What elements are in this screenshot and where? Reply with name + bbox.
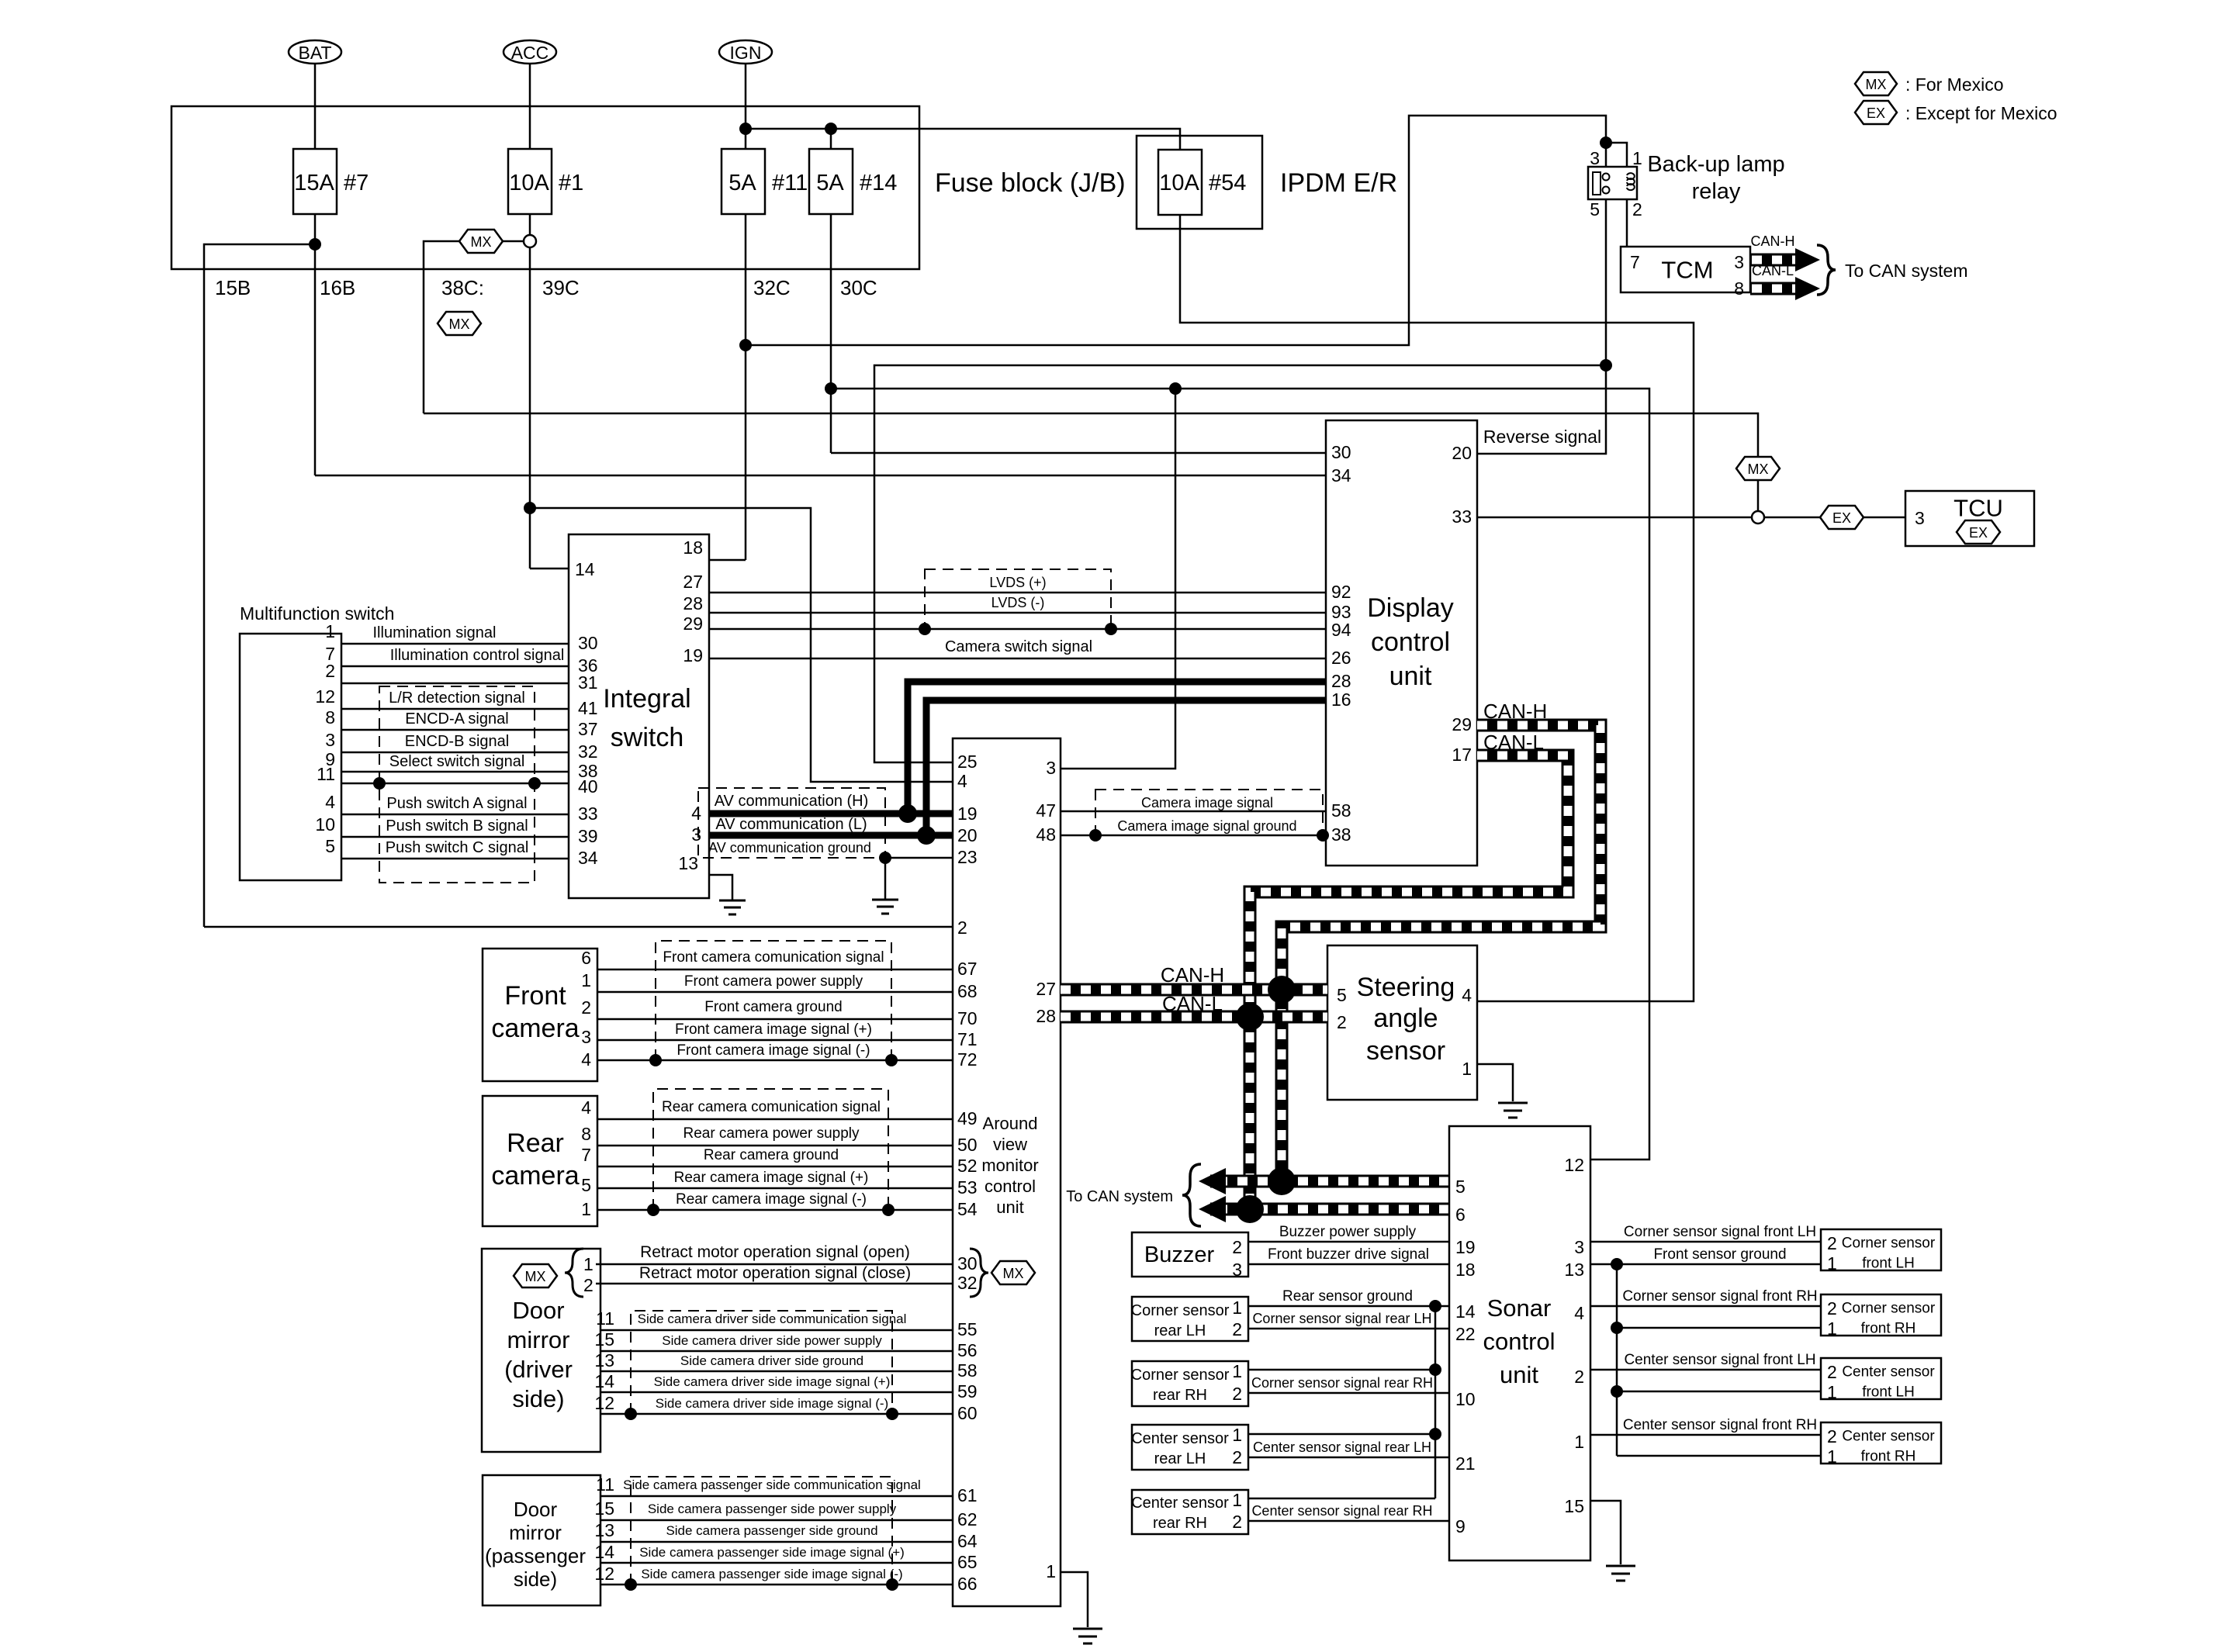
AVM pin 1 ground: [1061, 1572, 1088, 1627]
svg-text:control: control: [1371, 627, 1450, 657]
svg-text:3: 3: [325, 730, 335, 750]
svg-text:CAN-H: CAN-H: [1751, 233, 1795, 249]
svg-text:38: 38: [1331, 824, 1351, 845]
junction dot rear ground 3: [1429, 1428, 1441, 1440]
relay coil: [1627, 173, 1635, 190]
LVDS dashed box: [925, 569, 1111, 629]
steering pin 1 ground wire: [1477, 1064, 1513, 1101]
svg-text:side): side): [514, 1567, 557, 1591]
wire sonar 4 corner sensor signal front RH: [1590, 1305, 1821, 1308]
integral pin 27 to DCU 92: [709, 592, 1326, 594]
svg-text:2: 2: [957, 918, 967, 938]
svg-text:33: 33: [1452, 506, 1472, 527]
svg-text:mirror: mirror: [509, 1521, 562, 1544]
MX hexagon retract right: [991, 1261, 1035, 1284]
junction dot passenger shield left: [625, 1578, 637, 1591]
MX legend: [1855, 72, 2004, 95]
MX hexagon retract left: [514, 1264, 557, 1287]
svg-text:Center sensor: Center sensor: [1842, 1364, 1935, 1381]
svg-text:L/R detection signal: L/R detection signal: [389, 689, 525, 707]
svg-text:: Except for Mexico: : Except for Mexico: [1905, 103, 2057, 123]
corner sensor rear RH box: [1132, 1361, 1248, 1406]
svg-text:15A: 15A: [294, 171, 334, 195]
svg-text:33: 33: [578, 804, 598, 824]
svg-text:(driver: (driver: [504, 1356, 573, 1383]
svg-text:Retract motor operation signal: Retract motor operation signal (close): [639, 1264, 911, 1282]
svg-text:Side camera driver side image: Side camera driver side image signal (+): [654, 1374, 891, 1389]
svg-text:8: 8: [1734, 278, 1744, 299]
svg-text:LVDS (+): LVDS (+): [989, 575, 1046, 590]
svg-text:Camera image signal: Camera image signal: [1141, 795, 1273, 810]
rear camera pin 4 to AVM 49: [597, 1118, 953, 1121]
thick AV communication H wire: [709, 810, 953, 817]
wire mf8 ENCD-A signal: [341, 729, 569, 731]
svg-text:30C: 30C: [840, 276, 877, 299]
svg-text:31: 31: [578, 672, 598, 693]
wire IGN bus to IPDM fuse #54: [746, 129, 1180, 150]
svg-text:1: 1: [325, 621, 335, 641]
svg-text:50: 50: [957, 1135, 978, 1155]
svg-text:MX: MX: [449, 316, 470, 332]
svg-text:TCU: TCU: [1954, 495, 2003, 522]
svg-text:Front buzzer drive signal: Front buzzer drive signal: [1268, 1246, 1429, 1263]
svg-text:12: 12: [594, 1564, 614, 1584]
wire center rear RH signal to sonar 9: [1248, 1520, 1449, 1522]
wire sonar 3 corner sensor signal front LH: [1590, 1241, 1821, 1243]
svg-text:rear RH: rear RH: [1153, 1387, 1207, 1404]
thick AV L branch to DCU 16: [926, 700, 1326, 835]
svg-text:Center sensor signal rear LH: Center sensor signal rear LH: [1253, 1439, 1431, 1455]
arrow to CAN system lower: [1199, 1196, 1226, 1222]
wire 32C down from 5A#11: [745, 214, 747, 560]
svg-text:18: 18: [1455, 1260, 1476, 1280]
svg-text:3: 3: [1232, 1260, 1242, 1280]
svg-text:12: 12: [315, 686, 335, 707]
power source IGN: [719, 40, 772, 64]
svg-text:30: 30: [578, 633, 598, 653]
svg-text:Center sensor signal front LH: Center sensor signal front LH: [1624, 1352, 1815, 1368]
svg-text:view: view: [993, 1135, 1027, 1154]
corner sensor front RH box: [1821, 1294, 1941, 1336]
svg-text:ENCD-B signal: ENCD-B signal: [405, 733, 509, 750]
corner sensor rear LH box: [1132, 1297, 1248, 1341]
svg-text:9: 9: [1455, 1516, 1466, 1536]
junction dot front ground 3: [1611, 1385, 1623, 1398]
svg-text:EX: EX: [1832, 510, 1851, 526]
wire MX hexagon to circle: [1757, 480, 1760, 511]
svg-text:To CAN system: To CAN system: [1066, 1188, 1173, 1205]
TCM CAN-H arrow: [1750, 233, 1820, 271]
wire mf11: [341, 783, 569, 785]
wire corner rear LH signal to sonar 22: [1248, 1328, 1449, 1330]
wire 38C from MX hexagon down: [424, 241, 459, 413]
svg-text:66: 66: [957, 1574, 978, 1594]
multifunction switch box: [240, 634, 341, 880]
svg-text:Front camera power supply: Front camera power supply: [684, 973, 863, 990]
svg-text:4: 4: [325, 792, 335, 812]
svg-text:#1: #1: [559, 171, 583, 195]
center sensor front LH box: [1821, 1358, 1941, 1399]
svg-text:2: 2: [583, 1275, 593, 1295]
svg-text:32: 32: [957, 1273, 978, 1293]
svg-text:1: 1: [581, 970, 591, 990]
svg-text:Integral: Integral: [603, 684, 690, 714]
svg-text:32C: 32C: [753, 276, 791, 299]
svg-text:Push switch C signal: Push switch C signal: [386, 839, 529, 856]
wire IGN down into fuse block: [745, 64, 747, 149]
svg-text:Buzzer power supply: Buzzer power supply: [1279, 1224, 1417, 1240]
front camera dashed box: [656, 941, 891, 1060]
svg-text:Center sensor: Center sensor: [1131, 1495, 1229, 1512]
svg-text:13: 13: [1564, 1260, 1584, 1280]
front camera pin 6 to AVM 67: [597, 969, 953, 971]
fuse 5A #11: [722, 149, 808, 214]
svg-text:#11: #11: [772, 171, 808, 195]
svg-text:10: 10: [1455, 1389, 1476, 1409]
CAN-H hatched DCU 29 loop: [1282, 725, 1601, 1181]
svg-text:CAN-L: CAN-L: [1162, 992, 1223, 1015]
svg-text:MX: MX: [1003, 1266, 1024, 1281]
svg-text:Side camera passenger side ima: Side camera passenger side image signal …: [639, 1545, 905, 1560]
svg-text:Buzzer: Buzzer: [1144, 1242, 1215, 1267]
svg-text:21: 21: [1455, 1453, 1476, 1474]
svg-text:56: 56: [957, 1340, 978, 1360]
integral pin 13 ground: [709, 875, 732, 900]
wire 15B branch: [204, 244, 315, 927]
integral pin 19 camera switch signal to DCU 26: [709, 658, 1326, 660]
svg-text:5A: 5A: [816, 171, 844, 195]
wire relay pin2 to TCM pin7: [1626, 199, 1628, 247]
svg-text:12: 12: [594, 1393, 614, 1413]
svg-text:4: 4: [581, 1097, 591, 1118]
wire buzzer 3 to sonar 18: [1248, 1263, 1449, 1266]
front camera box: [483, 949, 597, 1081]
svg-text:Rear camera power supply: Rear camera power supply: [683, 1125, 860, 1142]
svg-text:65: 65: [957, 1552, 978, 1572]
svg-text:rear LH: rear LH: [1154, 1322, 1206, 1339]
AV communication dashed box: [698, 788, 885, 858]
big junction dot CAN-H / sonar5: [1268, 1167, 1296, 1195]
connector circle 39C: [524, 235, 536, 247]
center sensor rear LH box: [1132, 1425, 1248, 1470]
svg-text:16B: 16B: [320, 276, 355, 299]
svg-text:68: 68: [957, 981, 978, 1001]
svg-text:Corner sensor: Corner sensor: [1842, 1301, 1936, 1317]
svg-text:#7: #7: [344, 171, 369, 195]
svg-text:16: 16: [1331, 689, 1351, 710]
connector circle on 33 wire: [1752, 511, 1764, 524]
wire 30C down from 5A#14: [830, 214, 832, 453]
svg-text:Front camera comunication sign: Front camera comunication signal: [663, 949, 884, 966]
svg-text:94: 94: [1331, 620, 1351, 640]
wire mf1 illumination signal: [341, 643, 569, 645]
svg-text:MX: MX: [1866, 77, 1887, 92]
junction dot IGN/5A#11: [739, 123, 752, 135]
svg-text:70: 70: [957, 1008, 978, 1028]
svg-text:Corner sensor signal front RH: Corner sensor signal front RH: [1622, 1288, 1817, 1305]
brace to CAN system (sonar): [1182, 1164, 1201, 1226]
svg-text:1: 1: [581, 1199, 591, 1219]
svg-text:28: 28: [1036, 1006, 1056, 1026]
wire front ground to corner front RH pin1: [1617, 1327, 1821, 1329]
wire mf10 push switch B signal: [341, 836, 569, 838]
svg-text:58: 58: [957, 1360, 978, 1381]
svg-text:37: 37: [578, 719, 598, 739]
wire 38C MX feed to TCU circle: [424, 413, 1758, 459]
junction dot rear cam shield left: [647, 1204, 659, 1216]
wire corner rear RH pin1: [1248, 1369, 1435, 1371]
wire front ground to center front LH pin1: [1617, 1391, 1821, 1393]
MX hexagon above TCU circle: [1736, 457, 1780, 480]
wire AVM 48 to DCU 38: [1061, 835, 1326, 837]
svg-text:2: 2: [1827, 1233, 1837, 1253]
camera image dashed box: [1095, 790, 1323, 835]
sonar pin 15 ground: [1590, 1501, 1621, 1564]
TCM CAN-L arrow: [1750, 263, 1820, 300]
svg-text:4: 4: [1462, 985, 1472, 1005]
IPDM E/R box: [1137, 136, 1262, 229]
svg-text:Center sensor signal rear RH: Center sensor signal rear RH: [1251, 1503, 1432, 1519]
svg-text:MX: MX: [471, 234, 492, 250]
svg-text:13: 13: [594, 1520, 614, 1540]
svg-text:34: 34: [578, 848, 598, 868]
svg-text:1: 1: [1827, 1253, 1837, 1274]
svg-text:front LH: front LH: [1862, 1256, 1915, 1272]
svg-text:Rear sensor ground: Rear sensor ground: [1282, 1288, 1413, 1305]
svg-text:Multifunction switch: Multifunction switch: [240, 603, 394, 624]
svg-text:unit: unit: [996, 1198, 1023, 1217]
svg-text:unit: unit: [1500, 1361, 1538, 1388]
junction dot 30C branch: [825, 382, 837, 395]
svg-text:To CAN system: To CAN system: [1845, 261, 1967, 281]
wire 16B to DCU 34: [315, 475, 1326, 477]
svg-text:3: 3: [1734, 252, 1744, 272]
MX hexagon under 38C: [438, 312, 481, 335]
svg-text:control: control: [985, 1177, 1036, 1196]
junction dot rear cam shield right: [882, 1204, 895, 1216]
svg-text:11: 11: [317, 764, 335, 784]
svg-text:30: 30: [1331, 442, 1351, 462]
vertical front sensor ground chain: [1616, 1264, 1618, 1456]
svg-text:4: 4: [957, 771, 967, 791]
fuse block (J/B) box: [171, 106, 919, 269]
driver mirror pin 15 to AVM 56: [600, 1350, 953, 1353]
svg-text:MX: MX: [1748, 461, 1769, 477]
svg-text:Reverse signal: Reverse signal: [1483, 427, 1601, 447]
fuse 10A #54: [1158, 150, 1246, 215]
svg-text:2: 2: [1574, 1367, 1584, 1387]
svg-text:switch: switch: [611, 723, 683, 752]
vertical rear sensor ground chain: [1434, 1306, 1437, 1498]
svg-text:5: 5: [1455, 1177, 1466, 1197]
svg-text:38C:: 38C:: [441, 276, 484, 299]
big junction dot CAN-L / 28: [1236, 1003, 1264, 1031]
passenger mirror pin 15 to AVM 62: [600, 1519, 953, 1522]
svg-text:Side camera passenger side com: Side camera passenger side communication…: [623, 1477, 921, 1492]
svg-text:2: 2: [1827, 1298, 1837, 1318]
svg-text:Push switch B signal: Push switch B signal: [386, 817, 528, 835]
svg-text:58: 58: [1331, 800, 1351, 821]
svg-text:1: 1: [1232, 1425, 1242, 1445]
svg-text:55: 55: [957, 1319, 978, 1339]
wire 15B to AVM 2: [204, 926, 953, 928]
svg-text:Front camera image signal (-): Front camera image signal (-): [677, 1042, 870, 1059]
display control unit box: [1326, 420, 1477, 866]
svg-text:1: 1: [1232, 1490, 1242, 1510]
svg-text:11: 11: [596, 1308, 614, 1329]
svg-text:camera: camera: [491, 1014, 579, 1043]
wire EX to TCU: [1864, 517, 1905, 519]
svg-text:29: 29: [1452, 714, 1472, 734]
svg-text:54: 54: [957, 1199, 978, 1219]
svg-text:Push switch A signal: Push switch A signal: [386, 795, 527, 812]
brace TCM to CAN system: [1817, 245, 1836, 295]
AVM box: [953, 738, 1061, 1606]
rear camera pin 7 to AVM 52: [597, 1166, 953, 1168]
svg-text:19: 19: [1455, 1237, 1476, 1257]
svg-text:Rear: Rear: [507, 1128, 564, 1158]
relay fuse element: [1593, 172, 1601, 195]
svg-text:5A: 5A: [728, 171, 756, 195]
CAN hatched sonar 5 arrow line: [1210, 1175, 1449, 1188]
svg-text:28: 28: [1331, 671, 1351, 691]
svg-text:6: 6: [581, 948, 591, 968]
svg-text:62: 62: [957, 1509, 978, 1529]
junction dot IGN/5A#14: [825, 123, 837, 135]
svg-text:2: 2: [1632, 199, 1642, 219]
front camera pin 1 to AVM 68: [597, 991, 953, 994]
svg-text:(passenger: (passenger: [485, 1544, 586, 1567]
svg-text:1: 1: [1232, 1298, 1242, 1318]
svg-text:15: 15: [594, 1498, 614, 1519]
svg-text:1: 1: [1827, 1318, 1837, 1339]
svg-text:CAN-L: CAN-L: [1752, 263, 1794, 278]
power source BAT: [289, 40, 341, 64]
svg-text:Sonar: Sonar: [1487, 1294, 1552, 1322]
junction dot LVDS left: [919, 623, 931, 635]
wire 30C junction down to DCU 30: [831, 452, 1326, 454]
CAN hatched sonar 6 arrow line: [1210, 1203, 1449, 1216]
svg-text:TCM: TCM: [1661, 257, 1713, 284]
power source ACC: [504, 40, 556, 64]
front camera pin 3 to AVM 71: [597, 1039, 953, 1042]
door mirror driver side box: [482, 1249, 600, 1452]
ground AV communication: [872, 900, 898, 914]
EX legend: [1855, 101, 2057, 124]
svg-text:Retract motor operation signal: Retract motor operation signal (open): [640, 1243, 910, 1261]
CAN-L hatched DCU 17 loop: [1250, 755, 1568, 1209]
svg-text:#54: #54: [1209, 171, 1246, 195]
svg-text:5: 5: [581, 1175, 591, 1195]
svg-text:Front sensor ground: Front sensor ground: [1653, 1246, 1786, 1263]
wire AV ground drop: [884, 858, 887, 899]
buzzer box: [1132, 1232, 1248, 1277]
svg-text:Around: Around: [983, 1114, 1038, 1133]
svg-text:Corner sensor: Corner sensor: [1131, 1302, 1230, 1319]
wire AV ground to AVM 23: [885, 857, 953, 859]
svg-text:Camera switch signal: Camera switch signal: [945, 638, 1092, 655]
svg-text:15: 15: [1564, 1496, 1584, 1516]
TCM box: [1621, 247, 1750, 292]
ground sonar 15: [1606, 1566, 1635, 1581]
wire ACC to fuse 10A#1: [529, 64, 531, 149]
svg-text:17: 17: [1452, 745, 1472, 765]
svg-text:MX: MX: [525, 1269, 546, 1284]
svg-text:28: 28: [683, 593, 703, 613]
junction dot mf11 right: [528, 777, 541, 790]
svg-text:10: 10: [315, 814, 335, 835]
svg-text:15: 15: [594, 1329, 614, 1350]
svg-text:front RH: front RH: [1861, 1449, 1916, 1465]
ground AVM 1: [1073, 1629, 1102, 1643]
svg-text:13: 13: [678, 853, 698, 873]
wire 10A#1 bottom to circle: [529, 214, 531, 236]
svg-text:5: 5: [1590, 199, 1600, 219]
junction dot AVM pin3 tap: [1169, 382, 1182, 395]
junction dot front cam shield left: [649, 1054, 662, 1066]
svg-text:Rear camera ground: Rear camera ground: [704, 1147, 839, 1163]
svg-text:EX: EX: [1867, 105, 1885, 121]
EX hexagon inline: [1820, 506, 1864, 529]
svg-text:4: 4: [581, 1049, 591, 1070]
svg-text:22: 22: [1455, 1324, 1476, 1344]
wire 39C branch to AVM 4: [530, 508, 953, 782]
svg-text:Illumination control signal: Illumination control signal: [390, 647, 565, 664]
wire tap down to AVM pin 3: [1061, 389, 1175, 769]
wire center rear LH signal to sonar 21: [1248, 1457, 1449, 1459]
svg-text:61: 61: [957, 1485, 978, 1505]
junction dot AV ground: [879, 852, 891, 864]
wire 5A#14 top: [830, 129, 832, 149]
driver mirror pin 11 to AVM 55: [600, 1329, 953, 1332]
svg-text:10A: 10A: [509, 171, 549, 195]
svg-text:1: 1: [1632, 148, 1642, 168]
svg-text:14: 14: [594, 1542, 614, 1562]
svg-text:19: 19: [683, 645, 703, 665]
svg-text:2: 2: [1232, 1319, 1242, 1339]
svg-text:3: 3: [1574, 1237, 1584, 1257]
svg-text:5: 5: [325, 836, 335, 856]
svg-text:side): side): [512, 1385, 564, 1412]
svg-text:39: 39: [578, 826, 598, 846]
svg-text:Rear camera comunication signa: Rear camera comunication signal: [662, 1099, 881, 1115]
wire relay pin3: [1605, 143, 1607, 167]
wire IPDM #54 to steering pin 4: [1180, 215, 1694, 1001]
brace retract left: [565, 1249, 583, 1297]
svg-text:2: 2: [1232, 1237, 1242, 1257]
svg-text:Side camera passenger side pow: Side camera passenger side power supply: [648, 1502, 897, 1516]
back-up lamp relay box: [1588, 167, 1637, 199]
integral pin 29 to DCU 94: [709, 628, 1326, 631]
passenger side dashed box: [631, 1477, 892, 1585]
front camera pin 2 to AVM 70: [597, 1018, 953, 1021]
passenger mirror pin 13 to AVM 64: [600, 1541, 953, 1543]
wire mf12 L/R detection signal: [341, 708, 569, 710]
svg-text:Back-up lamp: Back-up lamp: [1647, 152, 1784, 177]
svg-text:relay: relay: [1692, 179, 1741, 204]
rear camera pin 8 to AVM 50: [597, 1145, 953, 1147]
svg-text:4: 4: [691, 803, 701, 823]
wire mf2: [341, 683, 569, 685]
junction dot reverse signal branch: [1600, 359, 1612, 372]
svg-text:14: 14: [1455, 1301, 1476, 1322]
wire reverse signal branch to AVM 25: [874, 365, 1606, 762]
front camera pin 4 to AVM 72: [597, 1059, 953, 1062]
svg-text:Steering: Steering: [1357, 973, 1455, 1002]
svg-text:2: 2: [325, 661, 335, 681]
svg-text:2: 2: [1232, 1447, 1242, 1467]
svg-text:1: 1: [583, 1254, 593, 1274]
